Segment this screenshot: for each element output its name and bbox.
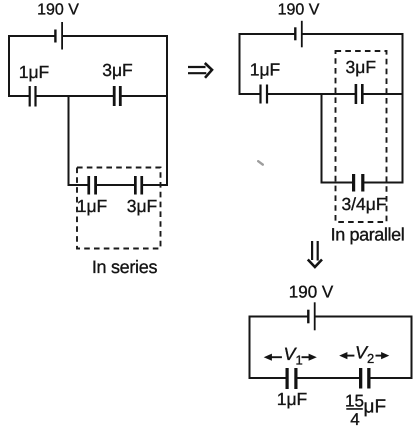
svg-text:3μF: 3μF: [346, 57, 377, 77]
wire circuit2 second row right segment: [364, 93, 403, 95]
implication arrow right: [188, 63, 212, 78]
label V2: [355, 343, 374, 367]
wire circuit2 bottom row right segment: [365, 182, 403, 184]
svg-text:3/4μF: 3/4μF: [341, 194, 386, 214]
battery B1: [54, 22, 63, 50]
svg-text:1: 1: [296, 352, 303, 367]
svg-text:1μF: 1μF: [277, 389, 308, 409]
wire circuit2 left side: [239, 34, 241, 94]
wire circuit2 top side right of battery: [303, 33, 403, 35]
voltage V1 left arrow: [264, 354, 282, 361]
capacitor C7 3/4uF: [352, 174, 364, 192]
svg-text:1μF: 1μF: [250, 60, 281, 80]
svg-text:1μF: 1μF: [77, 196, 108, 216]
wire circuit1 top side right of battery: [63, 35, 168, 37]
svg-text:3μF: 3μF: [102, 60, 133, 80]
wire circuit3 top side left of battery: [250, 316, 308, 318]
svg-text:In parallel: In parallel: [331, 225, 405, 245]
wire circuit1 right side: [166, 36, 168, 185]
capacitor C1 1uF: [29, 86, 37, 107]
wire circuit1 left side: [8, 36, 10, 96]
wire circuit1 second row middle segment: [37, 95, 113, 97]
wire circuit3 bottom row left segment: [250, 377, 286, 379]
svg-text:190 V: 190 V: [278, 1, 320, 18]
svg-text:2: 2: [367, 351, 374, 366]
capacitor C4 3uF series: [134, 176, 143, 195]
battery B3: [307, 302, 315, 330]
wire circuit3 bottom row right segment: [370, 377, 411, 379]
label capacitor C9 value 15/4 uF fraction: [345, 392, 386, 429]
wire circuit1 bottom row middle segment: [97, 184, 134, 186]
wire circuit2 second row middle segment: [268, 93, 355, 95]
svg-text:4: 4: [350, 410, 359, 429]
capacitor C5 1uF: [259, 85, 268, 104]
wire circuit1 second row right segment: [121, 95, 167, 97]
capacitor C8 1uF: [286, 368, 298, 389]
wire circuit2 top side left of battery: [240, 33, 295, 35]
capacitor C9 15/4uF: [359, 368, 371, 389]
voltage V2 left arrow: [339, 352, 354, 359]
wire circuit1 second row left segment: [9, 95, 29, 97]
wire circuit1 junction drop: [68, 96, 70, 185]
wire circuit2 second row left segment: [240, 93, 260, 95]
dashed box around parallel capacitors: [336, 51, 387, 222]
svg-text:15: 15: [345, 392, 364, 411]
label V1: [284, 344, 303, 367]
wire circuit3 right side: [411, 317, 413, 379]
svg-text:μF: μF: [364, 397, 387, 418]
capacitor C2 3uF: [113, 86, 122, 106]
svg-text:190 V: 190 V: [289, 283, 334, 302]
wire circuit1 top side left of battery: [9, 35, 54, 37]
voltage V2 right arrow: [376, 352, 390, 359]
wire circuit1 bottom row right segment: [143, 184, 167, 186]
voltage V1 right arrow: [302, 354, 317, 361]
wire circuit3 top side right of battery: [316, 316, 412, 318]
wire circuit1 bottom row left segment: [69, 184, 88, 186]
wire circuit2 junction drop: [321, 94, 323, 183]
svg-text:In series: In series: [92, 257, 158, 277]
svg-text:3μF: 3μF: [127, 196, 158, 216]
implication arrow down: [308, 241, 322, 267]
wire circuit2 right side: [402, 34, 404, 183]
battery B2: [294, 21, 303, 48]
svg-text:1μF: 1μF: [19, 62, 50, 82]
dashed box around series capacitors: [77, 168, 161, 249]
svg-text:190 V: 190 V: [37, 2, 79, 19]
wire circuit3 left side: [249, 317, 251, 379]
capacitor C6 3uF: [355, 84, 364, 104]
wire circuit2 bottom row left segment: [322, 182, 353, 184]
wire circuit3 bottom row middle segment: [297, 377, 359, 379]
capacitor C3 1uF series: [87, 176, 97, 195]
